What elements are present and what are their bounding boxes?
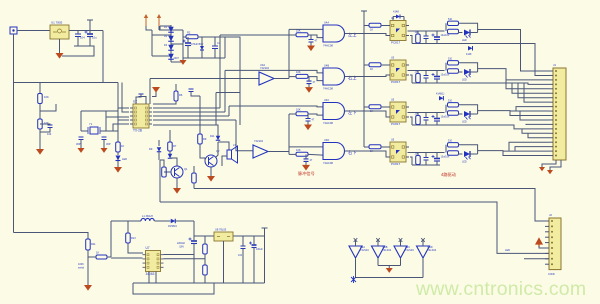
wire C11 top [242, 236, 244, 246]
wire inv gnd stem [388, 266, 390, 269]
wire U7 right pin1 [164, 254, 195, 256]
wire row1 cap stem [310, 35, 312, 40]
LED D83 [464, 111, 470, 117]
wire Q2 collector [216, 142, 218, 157]
diode D13 [468, 46, 473, 51]
zener D5 [200, 46, 204, 50]
wire vert x160 [159, 160, 161, 202]
wire net2 railC [412, 82, 440, 84]
wire row3 res feed [289, 113, 296, 115]
wire row3 in [229, 105, 323, 108]
wire U7 right pin2 [164, 258, 206, 260]
wire led2 join left [445, 63, 447, 71]
wire inv2 top stem [377, 240, 379, 246]
svg-text:J1: J1 [553, 63, 556, 67]
resistor R13 gate input [296, 112, 308, 116]
capacitor C12 electrolytic [252, 244, 257, 246]
wire flyback left leg [110, 221, 112, 257]
svg-text:R6: R6 [179, 93, 183, 97]
resistor R54 [448, 151, 459, 155]
svg-text:10u/16V: 10u/16V [441, 156, 450, 159]
capacitor C11 gate input [309, 40, 314, 43]
wire row3 res out [309, 114, 324, 115]
wire div top [39, 83, 41, 94]
svg-text:CON9: CON9 [548, 273, 555, 276]
power flag VCC2 [361, 11, 367, 16]
wire route r1 out [478, 30, 549, 72]
wire x200 vert [199, 96, 201, 134]
wire left bus bottom [14, 233, 89, 240]
capacitor C13 gate input [306, 119, 311, 122]
resistor R33 pullup [416, 116, 421, 125]
wire c24 stem2 [425, 160, 427, 165]
wire buffer1 out [274, 78, 289, 80]
wire led2 top path [459, 63, 478, 72]
wire c31 stem2 [436, 40, 438, 44]
wire bus v4 [236, 120, 253, 151]
svg-text:U4A: U4A [324, 21, 329, 25]
capacitor C24 [424, 158, 429, 161]
wire row2 cap gnd [308, 84, 310, 88]
wire route pin17 [515, 147, 549, 151]
capacitor C14 gate input [304, 159, 309, 162]
wire c32 stem2 [436, 79, 438, 83]
svg-text:右下: 右下 [348, 149, 357, 156]
wire inv3 out [400, 258, 402, 266]
wire led2 bot feed [459, 71, 463, 72]
wire r31 stubs [417, 31, 419, 34]
svg-text:脉冲信号: 脉冲信号 [298, 170, 315, 177]
svg-text:510: 510 [448, 58, 453, 61]
wire R9 to Q2 [200, 144, 205, 158]
wire D5 down [201, 50, 203, 58]
svg-text:74HC08: 74HC08 [323, 161, 333, 165]
svg-text:LED: LED [122, 157, 127, 161]
wire net4 opto low pin [410, 157, 412, 165]
svg-text:74HC08: 74HC08 [323, 44, 333, 48]
svg-text:10u: 10u [92, 36, 97, 40]
wire r34 stub2 [417, 164, 419, 167]
wire R13 bot [128, 243, 143, 253]
wire row4 res to opto [381, 146, 390, 148]
wire chainB to Q1 [170, 158, 177, 166]
svg-text:1K: 1K [96, 251, 99, 255]
optocoupler U53 [390, 102, 406, 122]
optocoupler U51 [390, 21, 406, 41]
wire right leg [264, 236, 266, 283]
wire row3 gate to opto pin2 [353, 111, 390, 117]
wire route pin7 [524, 83, 549, 102]
connector J2 [549, 218, 561, 270]
wire bus v1 [219, 35, 221, 108]
svg-text:R11: R11 [91, 242, 96, 246]
wire net1 railC [412, 43, 440, 45]
wire c21 stem [425, 31, 427, 36]
resistor R41 [448, 21, 459, 25]
wire c23 stem2 [425, 120, 427, 125]
svg-text:D11: D11 [210, 135, 215, 138]
speaker LS1 [227, 150, 232, 159]
wire route r3 out [478, 110, 549, 112]
wire C7 down [103, 140, 105, 149]
svg-text:U8 78L05: U8 78L05 [215, 228, 227, 232]
wire led4 out seg [470, 153, 478, 155]
wire vcc branch row4 [364, 146, 369, 148]
no-connect inv3 [399, 238, 403, 242]
power flag VCC1 [87, 20, 93, 25]
svg-text:R9: R9 [203, 137, 207, 141]
wire D7 right leg [403, 17, 405, 21]
wire VIN to regulator [17, 30, 50, 32]
wire U7 in2 [111, 257, 143, 259]
svg-text:10K: 10K [296, 148, 301, 152]
wire x200 top [194, 95, 200, 97]
wire route r2 railC [440, 83, 549, 84]
wire row3 cap stem [307, 114, 309, 119]
wire led3 out seg [470, 113, 478, 115]
ground bottom left [84, 285, 92, 291]
resistor R6 [174, 91, 178, 101]
svg-text:PC817: PC817 [391, 162, 401, 166]
wire led3 bot feed [459, 113, 463, 114]
svg-text:1K: 1K [370, 28, 373, 32]
diode D3 [168, 45, 174, 51]
wire vcc rail x364 [363, 11, 365, 147]
diode D4 [168, 54, 174, 60]
wire c24 stem [425, 153, 427, 158]
wire C12 bot [253, 248, 255, 284]
svg-text:LED: LED [462, 161, 467, 164]
capacitor C2 [87, 33, 93, 35]
inverter U9B [372, 246, 385, 258]
resistor R51 [448, 29, 459, 33]
ground gate row4 [302, 165, 310, 171]
resistor R2 [186, 35, 198, 39]
and gate U4D [323, 143, 345, 160]
terminal AC2 [157, 14, 161, 18]
wire r33 stub2 [417, 124, 419, 127]
svg-text:LED: LED [462, 121, 467, 124]
wire C3 stems [187, 37, 189, 43]
ground inverters [386, 268, 393, 273]
wire buffer1 feed drop [149, 79, 151, 105]
wire led4 top path [459, 145, 478, 154]
svg-text:4路驱动: 4路驱动 [441, 171, 456, 178]
wire U2 out3 [153, 115, 229, 117]
wire cap ground rail [62, 46, 94, 56]
wire inv4 out [422, 258, 424, 278]
wire route r2 out [478, 69, 549, 80]
wire route r1 railC [440, 44, 549, 76]
svg-text:1N5819: 1N5819 [168, 225, 177, 228]
wire U7 pins down1 [148, 272, 150, 284]
wire C11 bot [242, 249, 244, 284]
ground U2 top [152, 87, 160, 93]
capacitor C34 electrolytic [434, 158, 440, 160]
wire c34 stem [436, 153, 438, 159]
svg-text:左上: 左上 [348, 31, 357, 37]
diode D10 [168, 154, 173, 159]
terminal arrow J2 [536, 239, 542, 248]
svg-text:www.cntronics.com: www.cntronics.com [415, 278, 586, 300]
wire net1 opto low pin [410, 36, 412, 44]
wire bottom rail [133, 282, 265, 284]
wire U2 out2 [153, 111, 225, 113]
wire net3 opto low pin [410, 117, 412, 125]
wire c21 stem2 [425, 39, 427, 44]
svg-text:30P: 30P [106, 142, 111, 146]
diode D9 [157, 147, 162, 152]
svg-text:34063: 34063 [146, 272, 155, 276]
svg-text:4148: 4148 [466, 53, 472, 56]
wire row2 cap stem [308, 77, 310, 82]
svg-text:4007: 4007 [174, 57, 180, 60]
svg-text:74HC08: 74HC08 [323, 87, 333, 91]
terminal J1 gnd2 [547, 170, 553, 174]
wire bridge gnd stem [182, 56, 184, 60]
wire xtal top rail [81, 110, 106, 112]
wire chainA top [158, 140, 160, 146]
svg-text:1K: 1K [121, 144, 124, 148]
resistor R53 [448, 111, 459, 115]
diode D14 [439, 96, 443, 100]
wire net3 railB [408, 112, 445, 114]
wire c22 stem2 [425, 78, 427, 83]
wire inv4 top stem [422, 240, 424, 246]
wire row4 res out [309, 153, 324, 156]
ground LED chain [114, 167, 122, 173]
resistor R4 [38, 119, 43, 129]
wire R14 top [204, 236, 206, 244]
svg-text:U4B: U4B [324, 64, 329, 68]
wire R10 bottom [193, 183, 195, 189]
terminal AC1 [144, 14, 148, 18]
ground Q2 [207, 176, 215, 182]
wire C4 stems [214, 37, 216, 46]
wire net4 railB [408, 152, 445, 154]
wire L1 to D12 [155, 220, 171, 222]
svg-text:LED: LED [462, 39, 467, 42]
optocoupler U54 [390, 142, 406, 162]
diode D11 [216, 136, 221, 141]
wire 5V stem [264, 233, 266, 236]
wire net3 railC [412, 124, 440, 126]
wire chainB mid [169, 151, 171, 154]
resistor R32 pullup [416, 74, 421, 83]
wire Q1 emitter [176, 178, 178, 188]
wire psu right leg [224, 37, 226, 58]
wire J2 extra pin [524, 258, 549, 260]
wire C5 link [40, 124, 50, 125]
svg-text:1K: 1K [370, 67, 373, 71]
svg-text:10K: 10K [296, 29, 301, 33]
inverter U9A [349, 246, 362, 258]
wire led1 out seg [470, 32, 478, 34]
resistor R52 [448, 69, 459, 73]
wire J1 bottom stub2 [550, 160, 561, 170]
wire r33 stubs [417, 113, 419, 116]
inductor L1 [141, 218, 154, 221]
wire row4 top in [289, 146, 323, 148]
wire U7 pins down2 [155, 272, 157, 284]
wire route pin11 [520, 111, 549, 120]
wire led3 top path [459, 105, 478, 114]
svg-text:74LS04: 74LS04 [428, 249, 437, 252]
wire R12 left [88, 256, 96, 258]
ground C6 [78, 148, 85, 153]
svg-text:/16V: /16V [179, 246, 184, 249]
wire bridge out [183, 36, 186, 38]
svg-text:74LS04: 74LS04 [360, 249, 369, 252]
wire U2 out1 [153, 107, 220, 109]
wire row2 gate out [345, 76, 354, 78]
wire Q2 base [204, 158, 206, 161]
ic U2 TX-2B [133, 104, 149, 128]
regulator U8 [214, 232, 233, 241]
resistor R31 pullup [416, 34, 421, 43]
svg-text:LED: LED [462, 79, 467, 82]
svg-text:100uF: 100uF [256, 248, 263, 251]
svg-text:10K: 10K [296, 108, 301, 112]
wire bus v2 [224, 70, 226, 112]
wire rail y188 [194, 189, 549, 222]
wire row1 gate out [345, 33, 354, 35]
capacitor C7 [102, 137, 107, 140]
ground gate row1 [307, 46, 315, 52]
wire led1 bot feed [459, 32, 463, 33]
connector J1 [553, 68, 566, 160]
wire led4 bot feed [459, 153, 463, 154]
capacitor C23 [424, 118, 429, 121]
wire inv1 out [355, 258, 357, 278]
and gate U4C [323, 103, 345, 120]
wire row2 res to opto [381, 64, 390, 66]
wire led1 join left [445, 23, 447, 31]
wire route pin5 [512, 83, 549, 93]
wire bus x118 down [117, 83, 119, 143]
ground bridge [180, 60, 187, 65]
ground gate row2 [305, 87, 313, 93]
wire U2 gnd stem [152, 92, 156, 97]
wire bus v3 [228, 106, 230, 116]
wire vcc branch row2 [364, 64, 369, 66]
wire buffer1 feed [150, 78, 259, 80]
wire route pin14 [522, 129, 549, 133]
resistor R8 base [162, 167, 167, 177]
wire outer loop [133, 283, 214, 294]
wire net4 railC [412, 164, 440, 166]
wire route r4 out [478, 150, 549, 153]
wire row1 gate to opto pin2 [353, 34, 390, 36]
wire row4 cap gnd [305, 161, 307, 165]
svg-text:Q1: Q1 [184, 167, 188, 171]
wire led3 join left [445, 105, 447, 113]
wire R10 top [193, 166, 195, 173]
svg-text:104: 104 [80, 36, 85, 40]
wire C2 bottom [89, 37, 91, 47]
wire speaker feed top [218, 142, 229, 150]
ground Q1 [173, 188, 181, 194]
wire xtal right leg [106, 111, 118, 131]
resistor R12 [96, 255, 107, 259]
transistor Q2 [205, 155, 217, 167]
svg-text:U7: U7 [146, 246, 150, 250]
resistor R11 [86, 239, 91, 250]
svg-text:U4D: U4D [324, 138, 329, 142]
wire route pin16 [509, 142, 549, 150]
wire route r3 railC [440, 125, 549, 129]
wire row4 res feed [289, 153, 296, 155]
wire C1 stubs [77, 31, 79, 35]
wire net2 railB [408, 70, 445, 72]
svg-text:10K: 10K [296, 70, 301, 74]
wire route pin4 [506, 80, 549, 89]
wire Q1 base feed [160, 160, 164, 167]
wire row2 res feed [289, 76, 296, 78]
svg-text:serial: serial [78, 267, 84, 270]
LED D6 [116, 156, 121, 161]
wire xtal link right [100, 130, 106, 132]
wire div tap [40, 104, 56, 111]
svg-text:右上: 右上 [348, 74, 357, 81]
wire C3 down [187, 46, 189, 59]
resistor R10 [192, 173, 197, 183]
wire U2 left pin wires [118, 108, 129, 111]
svg-text:74LS04: 74LS04 [254, 139, 264, 143]
resistor R3 [38, 94, 43, 104]
wire inv1 top stem [355, 240, 357, 246]
wire c31 stem [436, 31, 438, 37]
diode D12 [171, 219, 176, 224]
wire r34 stubs [417, 153, 419, 156]
capacitor C6 [79, 137, 84, 140]
svg-text:74LS04: 74LS04 [383, 249, 392, 252]
wire R2 to rail [198, 36, 225, 38]
optocoupler U52 [390, 60, 406, 80]
resistor R22 opto drive [369, 63, 381, 67]
wire c22 stem [425, 71, 427, 76]
wire vcc branch row3 [364, 106, 369, 108]
wire Q2 emitter [210, 167, 212, 176]
wire U2 top loop [136, 94, 141, 104]
diode D7 [396, 15, 400, 19]
wire xtal to IC [106, 116, 129, 118]
resistor R23 opto drive [369, 105, 381, 109]
wire horizontal bus y82 [14, 82, 119, 84]
power flag 5V [262, 228, 268, 233]
capacitor C31 electrolytic [434, 36, 440, 38]
svg-text:Y1: Y1 [89, 122, 93, 126]
wire row4 gate out [345, 150, 354, 152]
resistor R42 [448, 61, 459, 65]
wire flyback node [193, 221, 195, 236]
resistor R15 [203, 265, 208, 275]
svg-text:L1 330uH: L1 330uH [142, 215, 153, 218]
svg-text:LS: LS [233, 143, 236, 147]
svg-text:U1 7805: U1 7805 [51, 21, 63, 25]
svg-text:PC817: PC817 [391, 80, 401, 84]
svg-text:510: 510 [448, 100, 453, 103]
capacitor C11 [241, 246, 246, 249]
wire U2 left pin2 [122, 83, 129, 113]
wire D7 loop [393, 16, 396, 18]
svg-text:10K: 10K [44, 95, 49, 99]
LED D84 [464, 151, 470, 157]
wire row3 cap gnd [307, 121, 309, 125]
bridge frame [151, 30, 153, 56]
svg-text:104: 104 [47, 132, 52, 136]
wire c32 stem [436, 71, 438, 77]
